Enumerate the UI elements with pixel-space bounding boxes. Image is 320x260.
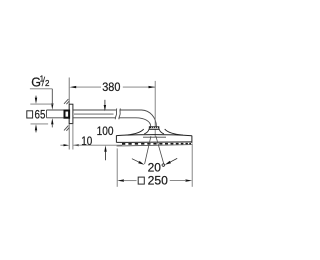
shower head bottom edge <box>116 141 191 144</box>
shower head dome curves <box>126 129 144 135</box>
shower head left edge <box>115 135 117 142</box>
svg-text:65: 65 <box>35 107 46 121</box>
escutcheon front face extension line down <box>72 124 74 150</box>
shower arm straight section <box>73 110 142 118</box>
dimension square 250 <box>117 143 192 187</box>
spray boundary right line <box>156 136 164 164</box>
dome base chord <box>143 136 166 138</box>
wall hatching lower <box>64 126 69 131</box>
svg-text:20°: 20° <box>148 160 166 174</box>
shower head top front edge <box>116 135 191 136</box>
thread nut <box>65 111 70 118</box>
G1/2 thread nipple <box>47 110 65 118</box>
dimension 10 <box>60 134 122 148</box>
arm bend (down curve) <box>136 110 156 127</box>
svg-text:380: 380 <box>102 80 120 94</box>
connector collar (knurled) <box>149 127 159 130</box>
svg-text:2: 2 <box>45 79 50 88</box>
dimension 380 extension line / head centerline <box>154 81 156 137</box>
dimension square 65 <box>27 96 53 133</box>
wall face line / extension line <box>68 78 70 150</box>
spray boundary left line <box>145 136 151 164</box>
connector flare <box>144 129 164 134</box>
escutcheon (square wall flange, side view) <box>69 104 73 123</box>
nozzle band <box>122 143 191 145</box>
svg-text:100: 100 <box>97 124 114 138</box>
spray face back edge <box>117 145 192 146</box>
arm break symbol <box>115 109 120 120</box>
dimension 380 <box>70 80 156 94</box>
wall hatching upper <box>64 99 69 104</box>
label G 1/2 <box>30 75 52 90</box>
svg-text:250: 250 <box>148 174 169 188</box>
shower head right edge <box>191 136 193 143</box>
svg-text:10: 10 <box>81 134 92 148</box>
spray angle arrows <box>132 158 177 164</box>
G1/2 leader arrows at pipe <box>51 89 53 128</box>
dimension 100 <box>97 100 114 161</box>
